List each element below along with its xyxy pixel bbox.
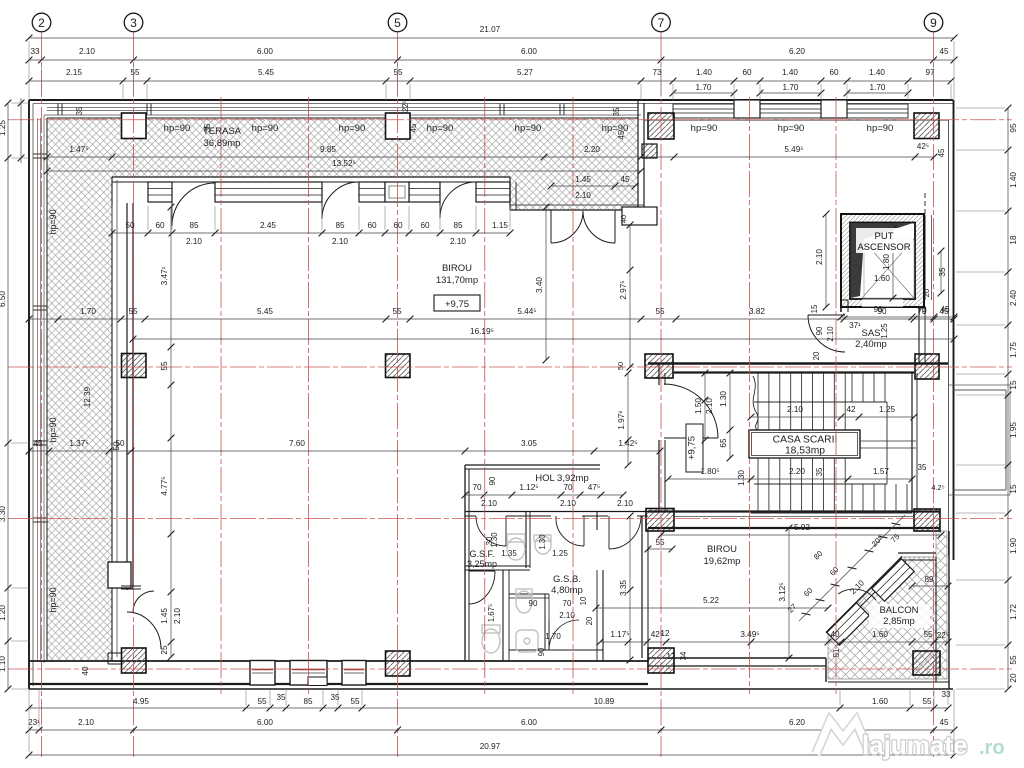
interior face line of top-right rooms (644, 119, 948, 121)
svg-text:20.97: 20.97 (480, 742, 501, 751)
svg-text:5.27: 5.27 (517, 68, 533, 77)
svg-text:.ro: .ro (979, 737, 1005, 759)
svg-text:2.10: 2.10 (560, 499, 576, 508)
axis bubble 5 (388, 13, 407, 32)
svg-text:1.67⁵: 1.67⁵ (487, 604, 496, 622)
terrace east wall (637, 100, 639, 210)
svg-text:2.10: 2.10 (78, 718, 94, 727)
parapet window notches top wall (57, 104, 59, 116)
dim stairs top (748, 405, 918, 420)
balcony right wall (948, 531, 950, 689)
svg-text:6.20: 6.20 (789, 718, 805, 727)
svg-text:G.S.B.: G.S.B. (553, 574, 581, 585)
svg-text:2.10: 2.10 (481, 499, 497, 508)
room label balcon (869, 604, 930, 628)
watermark logo (816, 721, 1005, 760)
stair hall west wall (658, 363, 660, 385)
svg-text:1.70: 1.70 (870, 83, 886, 92)
svg-text:60: 60 (393, 221, 403, 230)
svg-text:35: 35 (330, 693, 340, 702)
stair hall door leaf+arc (664, 384, 718, 438)
gsb east wall (596, 511, 598, 530)
dim 197 (617, 370, 631, 469)
elevator inner cab line (864, 239, 914, 298)
svg-text:2.10: 2.10 (575, 191, 591, 200)
staircase partial treads top right (851, 373, 853, 402)
svg-text:1.70: 1.70 (783, 83, 799, 92)
svg-text:1.40: 1.40 (782, 68, 798, 77)
terrace parapet inner line left (46, 118, 48, 660)
dim elevator left (815, 211, 829, 311)
svg-text:1.37⁵: 1.37⁵ (69, 439, 88, 448)
svg-text:G.S.F.: G.S.F. (469, 549, 494, 559)
svg-text:3,25mp: 3,25mp (467, 559, 497, 569)
svg-text:33: 33 (30, 47, 40, 56)
svg-text:3.05: 3.05 (521, 439, 537, 448)
bottom outer wall (29, 683, 648, 685)
axis horizontal y=119.75 (8, 119, 1012, 121)
svg-text:47⁵: 47⁵ (588, 483, 601, 492)
svg-text:1.25: 1.25 (552, 549, 568, 558)
svg-text:18: 18 (1009, 235, 1018, 245)
svg-text:9.85: 9.85 (320, 145, 336, 154)
svg-text:73: 73 (652, 68, 662, 77)
svg-text:2,40mp: 2,40mp (855, 339, 887, 350)
svg-text:4.77⁵: 4.77⁵ (160, 476, 169, 495)
svg-text:5: 5 (394, 16, 401, 30)
svg-text:85: 85 (303, 697, 313, 706)
dim 55 col (645, 538, 676, 552)
svg-text:1.47⁵: 1.47⁵ (69, 145, 88, 154)
hol south wall with doors (465, 511, 648, 513)
terrace inner corner wall (L near x510) (509, 177, 511, 210)
svg-text:2.10: 2.10 (617, 499, 633, 508)
svg-text:20: 20 (1009, 673, 1018, 683)
column axis9 mid (915, 354, 939, 379)
svg-text:90: 90 (488, 476, 497, 485)
svg-text:1.17⁵: 1.17⁵ (610, 630, 629, 639)
sanitary fixtures (gray) (482, 534, 551, 653)
column axis5 mid (386, 354, 411, 378)
svg-text:5.44⁵: 5.44⁵ (517, 307, 536, 316)
svg-text:35: 35 (815, 467, 824, 476)
room label put ascensor (856, 228, 913, 253)
top wall piers (734, 100, 760, 118)
svg-text:HOL 3,92mp: HOL 3,92mp (535, 473, 589, 484)
svg-text:60: 60 (367, 221, 377, 230)
wall with double door (NE of birou131) (510, 209, 648, 211)
svg-text:1.75: 1.75 (1009, 342, 1018, 358)
svg-text:15: 15 (810, 304, 819, 313)
svg-text:9: 9 (930, 16, 937, 30)
elevator cross diagonals (862, 239, 914, 298)
extension lines interior north windows row (112, 206, 510, 230)
svg-text:CASA SCARII: CASA SCARII (773, 435, 838, 446)
birou131 north wall with windows and doors (112, 176, 510, 178)
level box +9,75 (434, 295, 480, 311)
svg-text:2: 2 (38, 16, 45, 30)
dim terrace 1352 (44, 159, 645, 174)
dim right chain (1005, 105, 1018, 693)
axis vertical x=573 (572, 97, 574, 694)
svg-text:1.25: 1.25 (880, 323, 889, 339)
axis 5 vertical (397, 33, 399, 757)
svg-text:2.10: 2.10 (559, 611, 575, 620)
svg-text:55: 55 (392, 307, 402, 316)
svg-text:5.22: 5.22 (703, 596, 719, 605)
stair north wall (648, 362, 948, 365)
dim elevator inner (882, 226, 896, 302)
pier between windows (385, 182, 409, 202)
svg-text:55: 55 (923, 630, 933, 639)
dim sas row (838, 305, 958, 320)
birou19 door leaf+arc (609, 516, 641, 549)
svg-text:1.30: 1.30 (490, 532, 499, 548)
svg-text:5.45: 5.45 (258, 68, 274, 77)
svg-text:6.00: 6.00 (257, 718, 273, 727)
svg-text:1.15: 1.15 (492, 221, 508, 230)
svg-text:1.40: 1.40 (869, 68, 885, 77)
svg-text:7: 7 (658, 16, 665, 30)
shaft right wall extra lines (924, 215, 926, 300)
svg-text:1.70: 1.70 (696, 83, 712, 92)
svg-text:hp=90: hp=90 (427, 123, 454, 134)
svg-text:35: 35 (938, 267, 947, 277)
staircase treads lower flight (757, 458, 759, 513)
svg-text:60: 60 (829, 68, 839, 77)
svg-text:2.40: 2.40 (1009, 290, 1018, 306)
parapet window notches left wall (33, 153, 47, 155)
sas wall stub left of elevator door (841, 299, 848, 301)
axis vertical x=221 (220, 97, 222, 694)
svg-text:45: 45 (939, 718, 949, 727)
svg-text:hp=90: hp=90 (691, 123, 718, 134)
stairwell railing inner edge (754, 401, 887, 403)
door opening 1 (axis3 area) leaf+arc (172, 182, 215, 226)
svg-text:+9,75: +9,75 (687, 436, 698, 460)
svg-text:6.00: 6.00 (521, 718, 537, 727)
axis 2 vertical (41, 33, 43, 757)
interior door bottom-left double arc (133, 591, 154, 612)
elevator door opening (862, 299, 903, 307)
svg-text:21.07: 21.07 (480, 25, 501, 34)
gsb inner walls (502, 570, 504, 661)
column axis7 bottom (648, 648, 674, 673)
svg-text:1.25: 1.25 (0, 120, 7, 136)
svg-text:4.2⁵: 4.2⁵ (931, 483, 944, 492)
extension lines right (956, 108, 1005, 689)
svg-text:55: 55 (350, 697, 360, 706)
svg-text:35: 35 (75, 106, 84, 115)
axis bubble 7 (652, 13, 671, 32)
svg-text:7.60: 7.60 (289, 439, 305, 448)
parapet rail lines left (37, 118, 39, 660)
dim top row2 (26, 47, 958, 63)
svg-text:TERASA: TERASA (203, 126, 242, 137)
svg-text:hp=90: hp=90 (48, 417, 58, 442)
axis horizontal y=669 (8, 668, 1012, 670)
axis 9 vertical (933, 33, 935, 757)
svg-text:95: 95 (1009, 123, 1018, 133)
svg-text:3.49⁵: 3.49⁵ (740, 630, 759, 639)
birou19 west wall (641, 516, 643, 658)
svg-text:131,70mp: 131,70mp (436, 275, 478, 286)
dim left chain (0, 100, 11, 693)
svg-text:40: 40 (830, 630, 840, 639)
svg-text:1.40: 1.40 (696, 68, 712, 77)
svg-text:45: 45 (940, 305, 950, 314)
terrace parapet inner line top (47, 117, 638, 119)
column axis3 mid (122, 354, 147, 378)
gsb door leaf+arc (556, 516, 584, 546)
svg-text:1.80⁵: 1.80⁵ (700, 467, 719, 476)
balcony diagonal dim line (799, 515, 905, 621)
dim 35 elevator (938, 248, 947, 297)
svg-text:35: 35 (918, 463, 927, 472)
svg-text:hp=90: hp=90 (778, 123, 805, 134)
column axis9 stair south-east (914, 509, 940, 531)
svg-text:1.45: 1.45 (575, 175, 591, 184)
svg-text:42⁵: 42⁵ (917, 142, 929, 151)
svg-text:55: 55 (393, 68, 403, 77)
svg-text:15: 15 (1009, 484, 1018, 494)
axis bubble 9 (924, 13, 943, 32)
svg-text:34: 34 (679, 651, 688, 660)
svg-text:1.60: 1.60 (872, 697, 888, 706)
svg-text:1.90: 1.90 (1009, 538, 1018, 554)
svg-text:40: 40 (81, 666, 90, 676)
axis vertical x=484.75 (484, 97, 486, 694)
stair mid landing lines (860, 440, 916, 442)
svg-text:45: 45 (33, 439, 43, 448)
svg-text:6.00: 6.00 (257, 47, 273, 56)
dim 150 (694, 370, 708, 444)
balcony door arc (chamfer) (838, 589, 876, 600)
svg-text:hp=90: hp=90 (339, 123, 366, 134)
svg-text:60: 60 (420, 221, 430, 230)
svg-text:1.20: 1.20 (0, 605, 7, 621)
svg-text:2.10: 2.10 (79, 47, 95, 56)
svg-text:22⁵: 22⁵ (937, 631, 950, 640)
svg-text:6.50: 6.50 (0, 291, 7, 307)
svg-text:22⁵: 22⁵ (401, 100, 410, 112)
box2 bottom notch (308, 677, 327, 686)
column axis7 top wall (648, 113, 674, 139)
svg-text:1.70: 1.70 (80, 307, 96, 316)
door opening 2 leaf+arc (322, 182, 359, 219)
small corner column 45 (642, 144, 657, 158)
dim 522 (593, 596, 832, 611)
dim birou131 windows (109, 221, 514, 236)
svg-text:90: 90 (537, 647, 546, 656)
dim stairs bottom (665, 467, 916, 482)
svg-text:3.30: 3.30 (0, 506, 7, 522)
sanitary west wall (464, 465, 466, 661)
svg-text:lajumate: lajumate (862, 730, 968, 760)
svg-text:BALCON: BALCON (879, 605, 918, 616)
svg-text:23¹: 23¹ (28, 718, 40, 727)
dim birou19 592 (658, 523, 945, 538)
extension lines left (11, 103, 29, 689)
svg-text:hp=90: hp=90 (252, 123, 279, 134)
svg-text:1.45: 1.45 (160, 608, 169, 624)
svg-text:20: 20 (812, 351, 821, 360)
dim bottom row2 (26, 718, 958, 733)
chamfer stub to right wall (898, 552, 936, 554)
double door arcs (551, 210, 583, 243)
outer wall left (28, 100, 30, 689)
dim mid total (130, 327, 958, 342)
axis vertical x=749.5 (749, 97, 751, 694)
svg-text:45: 45 (937, 148, 946, 157)
svg-text:hp=90: hp=90 (602, 123, 629, 134)
svg-text:70: 70 (563, 483, 573, 492)
svg-text:70: 70 (917, 305, 927, 314)
svg-text:3.47¹: 3.47¹ (160, 266, 169, 285)
svg-text:2.45: 2.45 (260, 221, 276, 230)
dim bottom total (26, 742, 958, 758)
svg-text:25: 25 (160, 645, 169, 655)
svg-text:55: 55 (160, 361, 169, 371)
svg-text:50: 50 (112, 441, 121, 451)
balcony chamfer wall (826, 557, 902, 633)
svg-text:1.95: 1.95 (1009, 422, 1018, 438)
svg-text:60: 60 (155, 221, 165, 230)
svg-text:1.40: 1.40 (1009, 172, 1018, 188)
svg-text:2.10: 2.10 (332, 237, 348, 246)
svg-text:hp=90: hp=90 (48, 209, 58, 234)
column axis9 top wall (914, 113, 939, 139)
svg-text:6.00: 6.00 (521, 47, 537, 56)
svg-text:6.20: 6.20 (789, 47, 805, 56)
terrace hatch top band (47, 118, 638, 660)
door east jamb pier (622, 207, 657, 225)
gsf/gsb divider wall (525, 511, 527, 568)
axis vertical x=836 (835, 97, 837, 694)
svg-text:2.10: 2.10 (787, 405, 803, 414)
svg-text:5.92: 5.92 (794, 523, 810, 532)
svg-text:85: 85 (453, 221, 463, 230)
svg-text:12: 12 (661, 629, 670, 638)
svg-text:65: 65 (719, 438, 728, 448)
axis horizontal y=518.5 (8, 518, 1012, 520)
sas door arc (808, 315, 845, 352)
svg-text:45: 45 (939, 47, 949, 56)
dim top total (26, 25, 958, 41)
svg-text:2.10: 2.10 (705, 398, 714, 414)
wall step bottom-left (108, 652, 122, 654)
balcony hatch (828, 531, 947, 679)
svg-text:50: 50 (125, 221, 135, 230)
door jamb pier top (108, 562, 131, 588)
svg-text:37¹: 37¹ (849, 321, 861, 330)
svg-text:55: 55 (655, 538, 665, 547)
svg-text:3.40: 3.40 (535, 277, 544, 293)
svg-text:3.35: 3.35 (619, 580, 628, 596)
svg-text:70: 70 (472, 483, 482, 492)
axis bubble 3 (124, 13, 143, 32)
svg-text:12: 12 (667, 652, 676, 661)
dim 89 (909, 575, 952, 589)
svg-text:2.10: 2.10 (173, 608, 182, 624)
svg-text:hp=90: hp=90 (164, 123, 191, 134)
svg-text:PUT: PUT (875, 231, 894, 242)
svg-text:55: 55 (1009, 655, 1018, 665)
staircase treads upper flight (757, 373, 759, 430)
svg-text:18,53mp: 18,53mp (785, 446, 825, 457)
svg-text:2.10: 2.10 (826, 326, 835, 342)
svg-text:2.10: 2.10 (186, 237, 202, 246)
svg-text:13.52⁵: 13.52⁵ (332, 159, 356, 168)
top wall right section windows band (641, 103, 953, 105)
column axis5 top wall (386, 113, 411, 139)
svg-text:1.60: 1.60 (872, 630, 888, 639)
svg-text:3.82: 3.82 (749, 307, 765, 316)
svg-text:1.30: 1.30 (719, 391, 728, 407)
svg-text:1.10: 1.10 (0, 656, 7, 672)
svg-text:2.10: 2.10 (450, 237, 466, 246)
svg-text:4.95: 4.95 (133, 697, 149, 706)
chamfer window 1 (rotated) (872, 559, 914, 601)
extension lines bottom (29, 689, 954, 752)
svg-text:2.20: 2.20 (584, 145, 600, 154)
svg-text:3.12⁵: 3.12⁵ (778, 582, 787, 601)
dim double door (548, 175, 639, 189)
svg-text:10.89: 10.89 (594, 697, 615, 706)
svg-text:55: 55 (128, 307, 138, 316)
parapet rail lines top (47, 107, 638, 109)
svg-text:1.25: 1.25 (879, 405, 895, 414)
svg-text:42: 42 (846, 405, 856, 414)
+9,75 level box rotated (686, 424, 703, 472)
svg-text:89: 89 (924, 575, 934, 584)
svg-text:SAS: SAS (861, 328, 880, 339)
column axis9 balcony bottom (913, 651, 940, 675)
staircase partial treads bottom right (851, 484, 853, 513)
svg-text:1.70: 1.70 (545, 632, 561, 641)
svg-text:15: 15 (1009, 380, 1018, 390)
dim top row4 (1.70 windows) (670, 83, 738, 96)
dim bottom right row (597, 630, 952, 645)
svg-text:1.30: 1.30 (538, 534, 547, 550)
svg-text:55: 55 (257, 697, 267, 706)
dim stairs left (719, 370, 733, 462)
birou19 north wall (stair south wall) (648, 510, 940, 512)
axis horizontal y=367 (8, 366, 1012, 368)
svg-text:ASCENSOR: ASCENSOR (857, 242, 910, 253)
svg-text:10: 10 (579, 596, 588, 605)
svg-text:35: 35 (276, 693, 286, 702)
svg-text:4,80mp: 4,80mp (551, 585, 583, 596)
svg-text:+9,75: +9,75 (445, 299, 469, 310)
svg-text:51: 51 (832, 649, 841, 658)
dim top row3 (26, 68, 955, 84)
dim row 7.60 (26, 439, 664, 454)
dim hol row (462, 483, 627, 498)
svg-text:85: 85 (335, 221, 345, 230)
svg-text:1.35: 1.35 (501, 549, 517, 558)
svg-text:90: 90 (815, 326, 824, 335)
dim mid row (26, 307, 958, 322)
svg-text:33: 33 (941, 690, 951, 699)
stair east wall (911, 373, 913, 511)
svg-text:45: 45 (620, 175, 630, 184)
dim 335 (619, 513, 633, 664)
column axis5 bottom (386, 651, 411, 676)
svg-text:1.57: 1.57 (873, 467, 889, 476)
exterior landing right (954, 389, 1007, 391)
chamfer window 2 (rotated) (827, 603, 869, 645)
